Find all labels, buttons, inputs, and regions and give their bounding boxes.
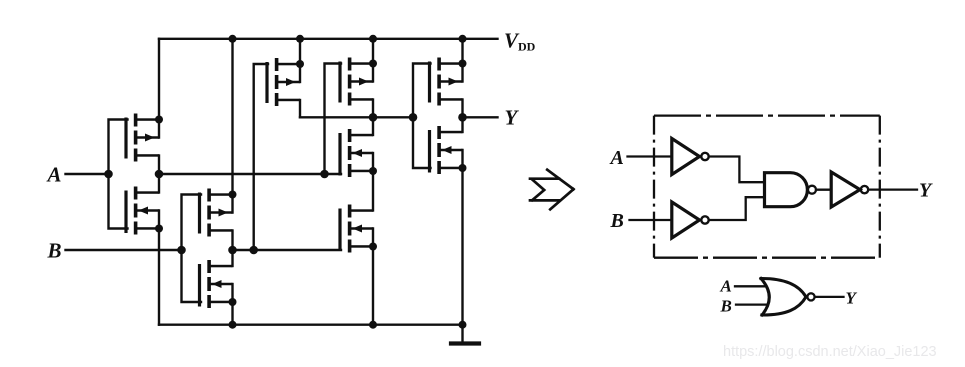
transistor TP4 (NAND PMOS right) (338, 58, 373, 106)
NAND output row (300, 116, 413, 118)
VDD rail (159, 38, 498, 40)
transistor TP2 (B-inverter PMOS) (198, 189, 233, 237)
wire G4 out to Y (869, 188, 917, 190)
wire column5 VDD drop to TP5 (461, 39, 463, 82)
junction ground rail / TN5 source (459, 321, 467, 329)
junction TN4 source tie (369, 243, 377, 251)
junction TP5 source tie (459, 60, 467, 68)
node Bbar (B-inverter output) (228, 246, 237, 255)
transistor TP3 (NAND PMOS left) (265, 58, 300, 106)
wire TN3 source to TN4 drain (372, 153, 374, 211)
svg-text:A: A (46, 163, 62, 187)
svg-text:A: A (720, 277, 732, 296)
implication arrow symbol (530, 170, 574, 210)
wire NOR out to Y (815, 296, 844, 298)
gate wire of TP4 to node NA (325, 64, 342, 175)
junction net B to inverter gates (177, 246, 186, 255)
svg-text:https://blog.csdn.net/Xiao_Jie: https://blog.csdn.net/Xiao_Jie123 (723, 344, 937, 360)
junction TN5 source tie (459, 164, 467, 172)
svg-text:DD: DD (518, 40, 536, 54)
wire TP2 drain to node NB (231, 231, 233, 267)
wire TP5 drain to Y node to TN5 drain (461, 100, 463, 133)
node Abar (A-inverter output) (155, 170, 164, 179)
node NA row (A-bar) (159, 173, 341, 175)
junction VDD rail / TP3 source column (296, 35, 304, 43)
wire B to inverter G2 (630, 219, 672, 221)
junction TN1 source tie (155, 225, 163, 233)
junction NAND output to inverter gates (409, 113, 418, 122)
wire column2 VDD drop to TP2 (231, 39, 233, 213)
gate trunk of inverter B (182, 195, 202, 303)
junction TP1 drain-source tie (155, 116, 163, 124)
junction ground rail / TN2 source (229, 321, 237, 329)
transistor TN1 (A-inverter NMOS) (124, 187, 159, 235)
gate trunk of inverter A (109, 120, 128, 229)
ground rail (159, 324, 463, 326)
junction TN2 source tie (229, 298, 237, 306)
inverter G1 (672, 139, 709, 175)
svg-text:B: B (610, 210, 624, 232)
ground symbol (451, 325, 479, 344)
junction ground rail / TN4 source (369, 321, 377, 329)
wire column4 TP4 source up to VDD (372, 39, 374, 82)
wire G1 out to NAND input 1 (709, 157, 765, 183)
transistor TP5 (output inverter PMOS) (428, 58, 463, 106)
svg-text:A: A (609, 147, 624, 169)
junction VDD rail / TP5 source column (459, 35, 467, 43)
junction TP2 source tie (229, 191, 237, 199)
NAND gate G3 (765, 173, 817, 207)
wire A to inverter G1 (628, 155, 672, 157)
svg-text:B: B (720, 297, 732, 316)
transistor TN3 (NAND NMOS top) (338, 129, 373, 177)
junction TN3 source / TN4 drain (369, 167, 377, 175)
junction net Abar to TP4 gate (320, 170, 329, 179)
svg-text:B: B (47, 239, 62, 263)
svg-text:Y: Y (919, 180, 933, 202)
NOR gate body (761, 278, 815, 315)
wire TP4 drain / TN3 drain junction (372, 100, 374, 136)
wire G2 out to NAND input 2 (709, 197, 765, 220)
wire B to NOR (736, 303, 766, 305)
node Y (output inverter drains) (458, 113, 467, 122)
junction net Bbar to TP3 gate (249, 246, 258, 255)
transistor TN5 (output inverter NMOS) (428, 126, 463, 174)
junction NAND output node (369, 113, 378, 122)
junction TP4 source tie (369, 60, 377, 68)
junction VDD rail / TP2 source column (229, 35, 237, 43)
wire TP3 drain down to NAND output row (299, 100, 301, 117)
wire TP1 drain to node NA (158, 156, 160, 193)
NOR symbol (720, 277, 858, 316)
node NB row (B-bar) (233, 249, 342, 251)
wire G3 out to inverter G4 (816, 189, 831, 191)
transistor TN4 (NAND NMOS bottom) (338, 205, 373, 253)
output Y wire (463, 116, 498, 118)
wire column1 VDD drop to TP1 (158, 39, 160, 138)
junction TP3 source tie (296, 60, 304, 68)
dash-dot enclosure box (654, 116, 880, 258)
wire column3 TP3 source up to VDD (299, 39, 301, 82)
junction VDD rail / TP4 source column (369, 35, 377, 43)
svg-text:Y: Y (505, 106, 520, 130)
junction net A to inverter gates (104, 170, 113, 179)
wire TN2 source down to ground rail (231, 284, 233, 325)
wire TN5 source down to ground rail (461, 150, 463, 325)
VDD label (504, 29, 536, 54)
inverter G2 (672, 202, 709, 238)
wire TN1 source down to ground rail (158, 211, 160, 325)
input B wire (66, 249, 182, 251)
gate wire of TP3 to node NB (254, 64, 268, 250)
transistor TP1 (A-inverter PMOS) (124, 114, 159, 162)
wire TN4 source down to ground rail (372, 229, 374, 325)
transistor TN2 (B-inverter NMOS) (198, 260, 233, 308)
svg-text:Y: Y (846, 289, 858, 308)
inverter G4 (831, 172, 868, 207)
wire A to NOR (735, 285, 766, 287)
gate trunk of output inverter (413, 64, 431, 169)
input A wire (66, 173, 109, 175)
